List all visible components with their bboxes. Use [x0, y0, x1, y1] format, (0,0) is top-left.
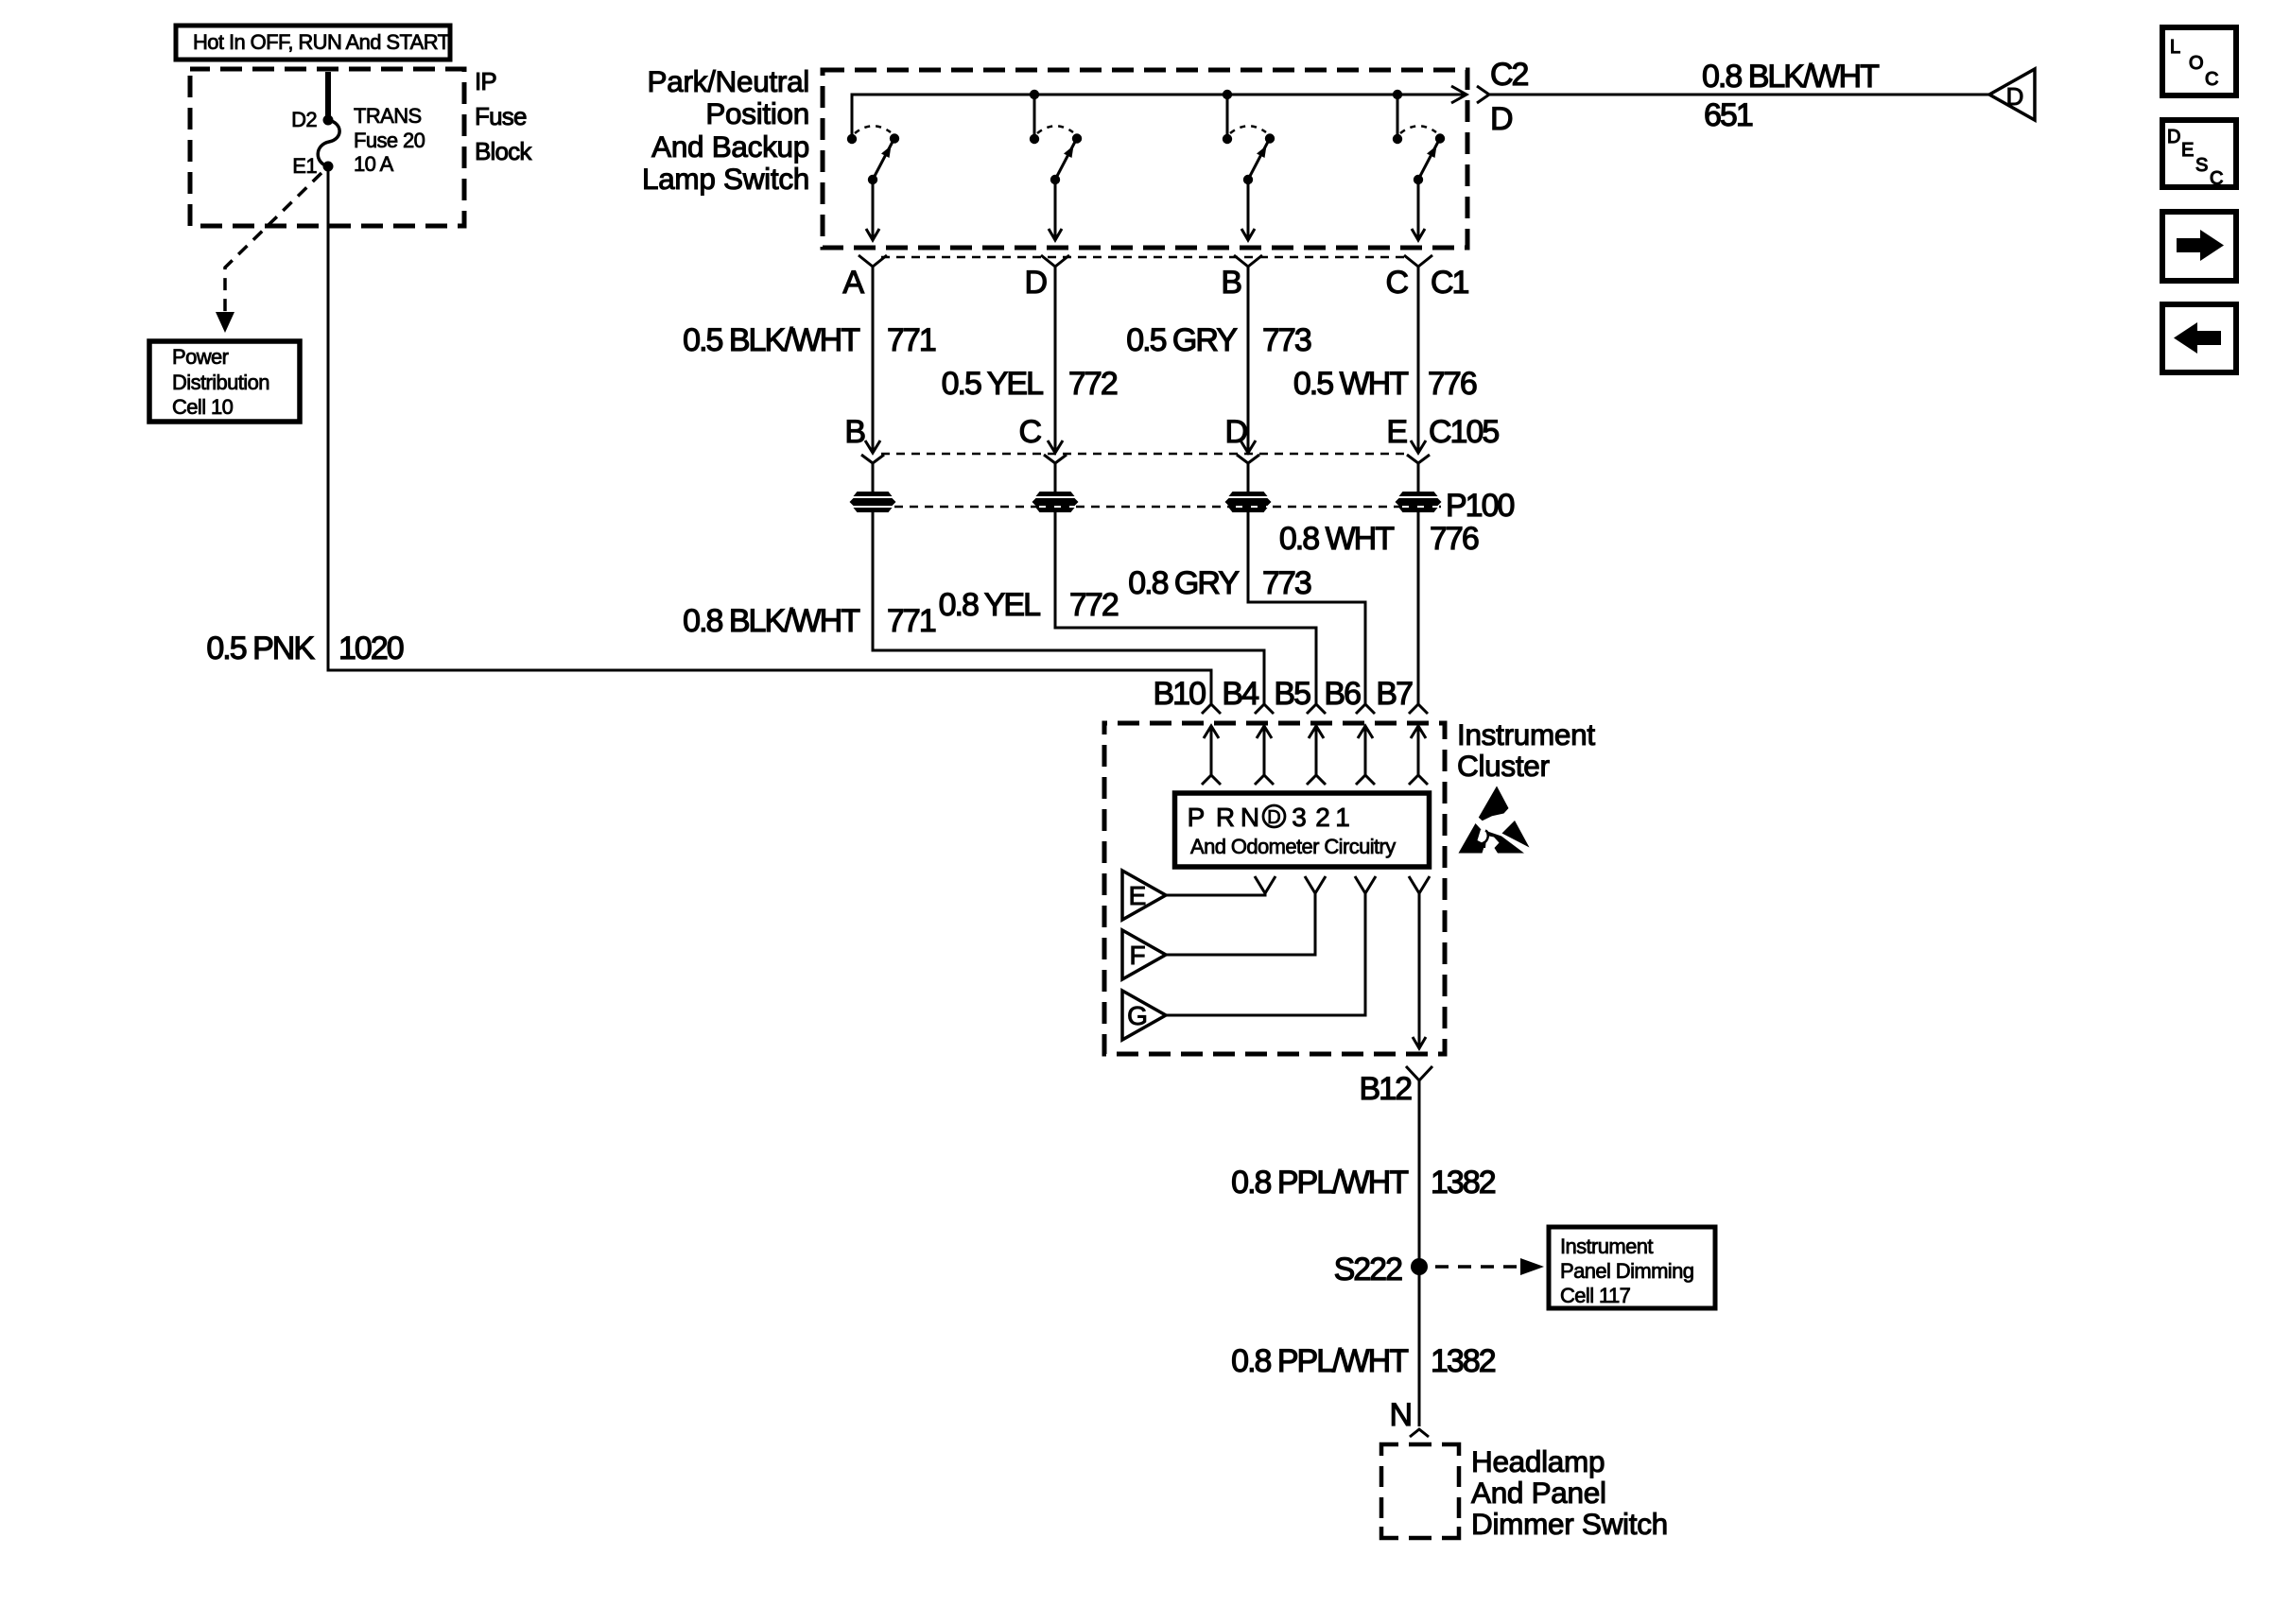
svg-text:D: D [1224, 414, 1246, 450]
svg-text:0.5 YEL: 0.5 YEL [942, 366, 1043, 402]
svg-text:Fuse 20: Fuse 20 [354, 129, 425, 152]
svg-text:0.8 BLK/WHT: 0.8 BLK/WHT [683, 603, 859, 639]
svg-text:C105: C105 [1429, 414, 1499, 450]
svg-text:0.8 PPL/WHT: 0.8 PPL/WHT [1231, 1165, 1408, 1201]
svg-text:773: 773 [1262, 565, 1311, 601]
svg-text:D: D [2006, 82, 2024, 111]
svg-text:Distribution: Distribution [172, 371, 269, 394]
svg-text:Cell 117: Cell 117 [1560, 1284, 1631, 1307]
svg-text:And Panel: And Panel [1471, 1476, 1606, 1510]
svg-text:N: N [1389, 1397, 1411, 1433]
svg-text:A: A [842, 265, 864, 301]
svg-text:772: 772 [1069, 587, 1119, 623]
svg-text:771: 771 [887, 322, 936, 358]
svg-text:0.8 WHT: 0.8 WHT [1279, 521, 1394, 557]
svg-text:And Odometer Circuitry: And Odometer Circuitry [1190, 835, 1396, 858]
svg-text:1: 1 [1335, 803, 1350, 832]
svg-text:And Backup: And Backup [651, 130, 809, 164]
svg-text:O: O [2189, 53, 2204, 74]
svg-text:D2: D2 [291, 108, 317, 131]
svg-text:D: D [1024, 265, 1046, 301]
svg-text:0.8 PPL/WHT: 0.8 PPL/WHT [1231, 1343, 1408, 1379]
svg-text:L: L [2170, 37, 2180, 58]
svg-text:B: B [844, 414, 864, 450]
svg-text:Block: Block [475, 137, 532, 165]
svg-text:2: 2 [1315, 803, 1330, 832]
svg-text:3: 3 [1292, 803, 1307, 832]
svg-text:Power: Power [172, 345, 229, 369]
svg-text:Fuse: Fuse [475, 102, 527, 130]
svg-text:B12: B12 [1360, 1071, 1413, 1107]
svg-text:Position: Position [705, 96, 809, 130]
svg-text:G: G [1127, 1001, 1148, 1030]
svg-text:S: S [2195, 155, 2208, 176]
svg-text:B: B [1221, 265, 1241, 301]
svg-text:B7: B7 [1376, 676, 1413, 712]
svg-text:1020: 1020 [338, 631, 404, 666]
svg-text:776: 776 [1428, 366, 1477, 402]
svg-text:R: R [1216, 803, 1235, 832]
svg-text:P100: P100 [1446, 488, 1514, 524]
svg-text:P: P [1188, 803, 1206, 832]
svg-text:0.5 PNK: 0.5 PNK [206, 631, 315, 666]
svg-text:773: 773 [1262, 322, 1311, 358]
svg-text:Park/Neutral: Park/Neutral [648, 64, 809, 98]
svg-text:771: 771 [887, 603, 936, 639]
svg-text:0.5 BLK/WHT: 0.5 BLK/WHT [683, 322, 859, 358]
svg-text:1382: 1382 [1431, 1343, 1496, 1379]
svg-text:0.8 GRY: 0.8 GRY [1128, 565, 1239, 601]
svg-text:Headlamp: Headlamp [1471, 1444, 1605, 1478]
svg-text:E: E [1129, 881, 1147, 910]
svg-text:D: D [1490, 101, 1512, 137]
svg-text:Panel Dimming: Panel Dimming [1560, 1259, 1693, 1283]
svg-text:C: C [2210, 168, 2223, 189]
svg-text:1382: 1382 [1431, 1165, 1496, 1201]
svg-text:772: 772 [1068, 366, 1118, 402]
svg-text:B4: B4 [1222, 676, 1258, 712]
svg-text:Instrument: Instrument [1560, 1235, 1653, 1258]
svg-text:C: C [1018, 414, 1041, 450]
svg-text:B6: B6 [1324, 676, 1361, 712]
svg-text:N: N [1241, 803, 1259, 832]
svg-text:D: D [2167, 127, 2180, 147]
svg-text:S222: S222 [1334, 1252, 1402, 1287]
svg-text:Dimmer Switch: Dimmer Switch [1471, 1507, 1668, 1541]
svg-text:B10: B10 [1154, 676, 1206, 712]
svg-text:Cluster: Cluster [1457, 749, 1550, 783]
svg-text:10 A: 10 A [354, 152, 394, 176]
svg-text:D: D [1267, 807, 1280, 828]
svg-text:0.8 YEL: 0.8 YEL [939, 587, 1040, 623]
svg-text:Hot In OFF, RUN And START: Hot In OFF, RUN And START [193, 30, 450, 54]
svg-text:C: C [1385, 265, 1408, 301]
svg-text:Lamp Switch: Lamp Switch [642, 162, 809, 196]
svg-text:Instrument: Instrument [1457, 717, 1595, 752]
svg-text:C1: C1 [1431, 265, 1469, 301]
svg-text:E: E [1386, 414, 1407, 450]
svg-text:0.5 GRY: 0.5 GRY [1126, 322, 1237, 358]
svg-text:E: E [2181, 140, 2194, 161]
svg-text:651: 651 [1704, 97, 1753, 133]
svg-text:0.5 WHT: 0.5 WHT [1293, 366, 1408, 402]
svg-text:Cell 10: Cell 10 [172, 395, 234, 419]
svg-text:E1: E1 [292, 154, 317, 178]
svg-text:C2: C2 [1490, 57, 1529, 93]
svg-text:C: C [2205, 69, 2218, 90]
svg-text:IP: IP [475, 67, 496, 95]
svg-text:0.8 BLK/WHT: 0.8 BLK/WHT [1702, 59, 1879, 95]
svg-text:776: 776 [1430, 521, 1479, 557]
svg-text:TRANS: TRANS [354, 104, 422, 128]
svg-text:B5: B5 [1274, 676, 1310, 712]
svg-text:F: F [1129, 941, 1145, 970]
